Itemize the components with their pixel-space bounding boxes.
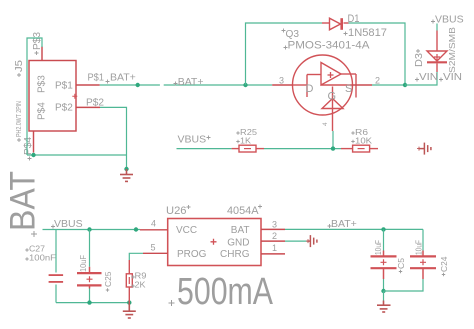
cross 4054A (258, 205, 262, 209)
plus C5 (381, 259, 387, 265)
cross PH2.0WT label (17, 138, 21, 142)
cross VBUS lower (51, 225, 55, 229)
svg-text:P$1: P$1 (88, 72, 105, 84)
svg-text:D3: D3 (413, 53, 425, 67)
junction gate/VBUS (331, 146, 335, 150)
cross VBUS top right (431, 20, 435, 24)
wire bottom rail (56, 302, 129, 304)
svg-text:VBUS: VBUS (435, 14, 464, 26)
svg-text:PH2.0WT 2PIN: PH2.0WT 2PIN (16, 101, 23, 137)
cross 1N5817 (344, 32, 348, 36)
cross C25 (106, 288, 109, 291)
junction P$4/GND (31, 153, 35, 157)
svg-text:VCC: VCC (176, 225, 197, 236)
IC pin 5 stub (143, 252, 168, 254)
junction C5 bottom (381, 289, 385, 293)
J5 pin P$1 stub (76, 84, 100, 86)
cross C5 (399, 270, 402, 273)
junction above ground (124, 167, 128, 171)
ground symbol (J5 net) (120, 169, 133, 181)
wire Q3 pin2 to VIN junction (372, 84, 405, 86)
J5 pin P$2 stub (76, 106, 100, 108)
cross BAT big (31, 231, 37, 237)
junction C5 top (381, 227, 385, 231)
junction BAT+ at Q3 (243, 83, 247, 87)
cross R9 (131, 275, 134, 278)
svg-text:BAT: BAT (4, 171, 43, 231)
IC U2 body (168, 219, 261, 266)
resistor R6 (341, 145, 378, 152)
wire P$1 BAT+ seg1 (100, 84, 160, 86)
svg-text:PMOS-3401-4A: PMOS-3401-4A (288, 40, 371, 52)
svg-text:100nF: 100nF (29, 253, 56, 263)
svg-text:P$4: P$4 (37, 102, 48, 120)
cross R6 (351, 131, 354, 134)
IC pin 2 stub (261, 240, 285, 242)
ground symbol rotated (floating right) (420, 143, 431, 155)
svg-text:2: 2 (272, 231, 277, 241)
svg-text:D: D (306, 83, 314, 95)
svg-text:S: S (345, 83, 352, 95)
junction VIN (403, 83, 407, 87)
wire gate drop (332, 131, 334, 149)
svg-text:P$3: P$3 (31, 32, 43, 50)
wire P$2 to GND (100, 107, 127, 169)
diode D1 (322, 18, 349, 30)
Q3 pin 3 stub (272, 84, 292, 86)
svg-text:C24: C24 (439, 256, 449, 272)
svg-text:Q3: Q3 (286, 28, 300, 40)
svg-text:BAT+: BAT+ (178, 76, 204, 88)
wire pin2 to ground (285, 240, 308, 242)
cross 500mA (169, 300, 175, 306)
capacitor C5 polarized (371, 251, 397, 280)
svg-text:5: 5 (151, 242, 156, 252)
svg-text:U26: U26 (166, 205, 187, 217)
cross 10K (351, 140, 354, 143)
plus C24 (420, 259, 426, 265)
wire BAT+ up to D1 (246, 23, 323, 85)
wire C25 branch (89, 230, 91, 267)
junction pin4 (134, 227, 138, 231)
svg-text:3: 3 (272, 220, 277, 230)
wire VBUS middle run (177, 148, 232, 150)
svg-text:VBUS: VBUS (54, 218, 83, 230)
cross C27 (25, 248, 28, 251)
svg-text:D1: D1 (348, 13, 360, 25)
svg-text:C5: C5 (396, 258, 406, 269)
ground symbol under C5 (377, 291, 391, 312)
svg-text:2K: 2K (135, 280, 146, 290)
svg-text:1K: 1K (240, 136, 251, 146)
svg-text:1N5817: 1N5817 (348, 27, 387, 39)
cross BAT+ second (174, 82, 178, 86)
svg-text:S2M/SMB: S2M/SMB (447, 27, 457, 73)
svg-text:CHRG: CHRG (220, 249, 250, 260)
svg-text:PROG: PROG (177, 249, 207, 260)
cross 2K (131, 284, 134, 287)
IC pin 4 stub (140, 229, 168, 231)
cross J5 label (17, 73, 21, 77)
wire BAT+ lower (285, 228, 423, 230)
cross D3 label (416, 49, 420, 53)
wire VBUS rail (43, 229, 141, 231)
wire D1 cathode to VIN corner (349, 23, 406, 85)
wire C27 branch (55, 230, 57, 273)
svg-text:GND: GND (227, 238, 249, 249)
svg-text:4: 4 (322, 122, 329, 126)
cross 100nF (25, 257, 28, 260)
svg-text:J5: J5 (13, 60, 25, 72)
wire P$3 to GND net (27, 38, 42, 155)
svg-text:4054A: 4054A (227, 205, 259, 217)
J5 pin P$4 stub (33, 131, 35, 153)
wire VIN to D3 (405, 72, 437, 85)
IC pin 1 stub (261, 253, 285, 255)
svg-text:10uF: 10uF (79, 255, 88, 272)
junction BAT+ left (136, 83, 140, 87)
svg-text:G: G (328, 91, 337, 103)
wire GND bottom run (27, 154, 127, 156)
cross BAT+ first (106, 80, 110, 84)
cross VIN right (439, 78, 443, 82)
wire C27 bottom (55, 285, 57, 303)
transistor Q3 (293, 55, 357, 131)
cross P$3 top label (35, 51, 39, 55)
cross VBUS middle (207, 136, 211, 140)
connector J5 body (29, 61, 76, 132)
junction C25 bottom (87, 300, 91, 304)
wire C5 bottom (383, 279, 385, 291)
svg-text:C25: C25 (103, 271, 113, 287)
cross P$4 bottom label (28, 157, 32, 161)
plus mark in Q3 (328, 72, 334, 78)
resistor R25 (232, 145, 264, 152)
wire C24 bottom to rail (384, 279, 424, 291)
cross BAT+ lower (328, 224, 332, 228)
IC pin 3 stub (261, 228, 285, 230)
svg-text:VIN: VIN (419, 71, 438, 83)
cross ground pin2 (306, 239, 310, 243)
svg-text:BAT+: BAT+ (331, 218, 357, 230)
svg-text:500mA: 500mA (177, 271, 274, 313)
svg-text:10uF: 10uF (415, 240, 424, 255)
capacitor C27 (49, 275, 64, 282)
cross U26 (187, 205, 191, 209)
svg-text:P$4: P$4 (22, 137, 34, 155)
plus mark in D3 (434, 54, 440, 60)
J5 pin P$3 stub (41, 47, 43, 61)
wire C24 top branch (422, 229, 424, 250)
wire C25 bottom (89, 289, 91, 303)
cross C24 (442, 273, 445, 276)
svg-text:1: 1 (272, 243, 277, 253)
wire PROG net (129, 253, 143, 260)
junction R9 bottom (127, 300, 131, 304)
svg-text:2: 2 (375, 76, 380, 86)
capacitor C24 polarized (410, 251, 436, 280)
svg-text:P$2: P$2 (86, 96, 104, 108)
svg-text:BAT: BAT (231, 225, 250, 236)
wire BAT+ seg2 (164, 84, 273, 86)
svg-text:P$3: P$3 (37, 75, 48, 93)
wire C5 top (383, 229, 385, 250)
cross Q3 (282, 29, 286, 33)
svg-text:3: 3 (279, 76, 284, 86)
wire R25 to gate junction (264, 148, 341, 150)
ground symbol rotated at pin2 (308, 235, 317, 247)
connector J5 origin cross (72, 94, 77, 99)
wire D3 to VBUS (436, 24, 438, 31)
cross ground rotated (417, 147, 421, 151)
capacitor C25 polarized (77, 267, 102, 289)
cross VIN left (415, 78, 419, 82)
svg-text:4: 4 (151, 219, 156, 229)
svg-text:VBUS: VBUS (178, 134, 207, 146)
Q3 pin 2 stub (353, 84, 373, 86)
cross 1K (236, 140, 239, 143)
cross PMOS (284, 46, 288, 50)
diode D3 (427, 31, 447, 73)
ground symbol bottom left (123, 303, 136, 318)
svg-text:P$1: P$1 (55, 81, 73, 92)
svg-text:BAT+: BAT+ (110, 72, 136, 84)
junction C25 top (87, 227, 91, 231)
resistor R9 (126, 260, 132, 303)
svg-text:10K: 10K (355, 136, 372, 146)
cross R25 (236, 131, 239, 134)
svg-text:P$2: P$2 (55, 103, 73, 114)
plus C25 (87, 276, 93, 282)
IC origin cross (211, 239, 217, 245)
svg-text:10uF: 10uF (374, 240, 383, 255)
